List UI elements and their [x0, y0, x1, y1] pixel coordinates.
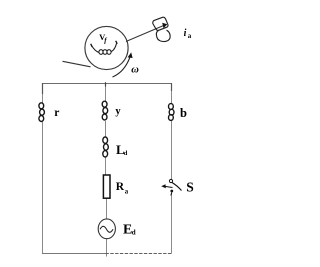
junction middle-top rail	[105, 82, 107, 86]
machine circle (synchronous generator)	[85, 26, 128, 69]
field winding terminal tick left	[91, 44, 93, 47]
omega rotation arrow	[113, 57, 131, 77]
svg-text:a: a	[188, 32, 192, 40]
svg-text:a: a	[125, 189, 129, 196]
svg-text:y: y	[115, 106, 121, 117]
shaft left stub	[63, 61, 91, 67]
source Ed (AC source circle)	[98, 219, 115, 239]
shaft right segment	[126, 26, 163, 42]
field winding terminal tick right	[116, 41, 118, 44]
prime-mover lower blob	[156, 30, 170, 41]
inductor Ld (middle lower coil)	[103, 137, 109, 157]
switch S	[161, 179, 181, 195]
top-left corner ink	[42, 83, 44, 94]
svg-text:d: d	[124, 150, 128, 157]
wire left branch	[42, 84, 44, 254]
top-right corner ink	[171, 83, 173, 91]
svg-text:d: d	[132, 228, 136, 236]
wire right branch	[171, 84, 173, 254]
svg-text:i: i	[184, 28, 187, 39]
svg-text:r: r	[54, 107, 59, 119]
inductor y (middle upper coil)	[102, 101, 108, 120]
wire bottom rail	[42, 253, 106, 255]
prime-mover box (tilted square on shaft)	[153, 17, 168, 30]
svg-text:f: f	[104, 37, 107, 45]
svg-text:b: b	[180, 106, 187, 120]
inductor b (right coil)	[169, 104, 175, 121]
svg-text:R: R	[116, 181, 125, 193]
inductor r (left coil)	[39, 103, 45, 122]
svg-text:S: S	[186, 179, 194, 194]
wire top rail	[42, 83, 172, 85]
resistor Ra	[103, 175, 110, 198]
field winding inside machine	[92, 44, 117, 55]
svg-text:ω: ω	[131, 64, 139, 75]
wire middle branch	[106, 84, 107, 257]
shaft arrowhead (torque arrow)	[162, 23, 167, 28]
